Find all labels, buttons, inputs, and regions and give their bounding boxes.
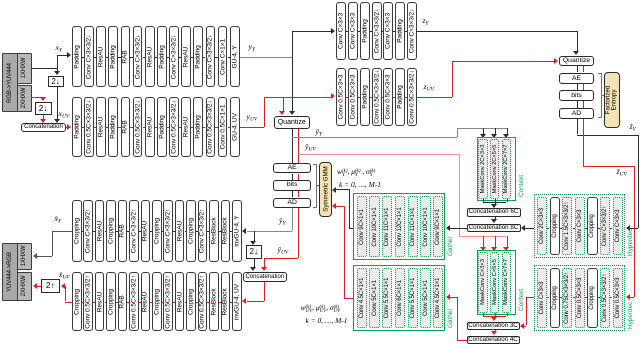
- wire Y-encoder connector 7: [155, 57, 157, 58]
- wire Y-encoder connector 6: [143, 57, 145, 58]
- wire UV-decoder connector 8: [162, 302, 164, 303]
- gather-Y conv 6: [420, 196, 430, 257]
- wire concat4C to gather UV: [450, 297, 458, 298]
- Y-encoder box 3 ResAU: [96, 26, 106, 87]
- wire Y-hyperdecoder connector 5: [598, 228, 600, 229]
- wire yUV to hyperencoder: [264, 97, 331, 98]
- arrowhead into concat 8C: [491, 219, 497, 223]
- wire xY horizontal from 1XHXW: [32, 68, 57, 69]
- wire bits-AD black: [292, 191, 293, 198]
- wire ctxUV merge drop 1: [483, 313, 484, 316]
- wire xUV-hat riser: [65, 286, 66, 302]
- label yY-hat decoder: [279, 217, 286, 227]
- wire yY-hat from AD: [292, 208, 293, 231]
- arrowhead yUV-hat into maskconvC 1: [480, 247, 486, 251]
- wire yY vertical split: [292, 31, 293, 113]
- wire yY output: [240, 57, 292, 58]
- label context UV label: [518, 288, 525, 310]
- wire hyperdecUV to concat3C: [524, 326, 527, 327]
- UV-hyperdecoder box 3 Conv 0.75C&#215;: [562, 268, 572, 328]
- wire gatherUV out: [344, 298, 354, 299]
- wire hyper bits-ad red: [583, 101, 584, 108]
- output converter YUV444-to-RGB: [2, 243, 18, 302]
- label zUV-hat: [617, 168, 627, 178]
- label yUV-hat near quantize: [305, 143, 316, 153]
- input Y plane 1xHxW: [17, 53, 32, 84]
- Y-decoder box 5 RAB: [118, 200, 128, 262]
- wire UV-decoder connector 9: [173, 302, 175, 303]
- arrowhead zUV-hat arrow: [626, 294, 630, 300]
- label yUV: [247, 113, 258, 123]
- wire Y-hyperdecoder connector 4: [585, 228, 587, 229]
- wire zUV-hat across: [583, 166, 634, 167]
- wire Y-hyperdecoder connector 2: [560, 228, 562, 229]
- arrowhead yUV into quantize: [279, 111, 285, 115]
- gather Y (outer green box): [353, 193, 444, 259]
- context model UV (outer green box): [477, 250, 516, 315]
- Y-decoder box 2 Conv C&#215;3&#215: [83, 200, 93, 262]
- UV-encoder box 6 Conv 0.5C&#215;3&#21: [133, 97, 143, 158]
- wire Y-encoder connector 10: [191, 57, 193, 58]
- wire Y downsample feed: [57, 68, 58, 72]
- wire Y-decoder connector 12: [207, 231, 209, 232]
- UV-decoder box 13 ResBlock: [209, 272, 219, 331]
- arrowhead 2-up arrow: [33, 283, 37, 289]
- UV-encoder box 8 Padding: [157, 97, 167, 158]
- UV-encoder box 9 Conv 0.5C&#215;3&#21: [169, 97, 179, 158]
- arrowhead yY-hat into maskconv2C 3: [503, 134, 509, 138]
- wire yUV-hat down: [264, 258, 265, 268]
- wire UV-decoder connector 14: [230, 302, 232, 303]
- wire Y-hyperencoder connector 5: [393, 31, 395, 32]
- Y-hyperencoder box 1 Conv C&#215;3&#215: [336, 2, 346, 60]
- wire UV-hyperdecoder connector 5: [598, 297, 600, 298]
- label zY: [423, 17, 429, 27]
- wire zY output: [417, 31, 577, 32]
- wire gatherY riser: [349, 189, 350, 228]
- arrowhead into dec concatenation red: [261, 267, 267, 271]
- gather-Y conv 4: [395, 196, 405, 257]
- arrowhead xY arrow: [67, 52, 71, 58]
- wire UV-decoder connector 2: [93, 302, 95, 303]
- wire yUV-hat drop 3: [507, 236, 508, 248]
- gather-UV conv 3: [382, 268, 392, 328]
- wire 2-down #3 out: [254, 259, 255, 268]
- label hyperdec UV label: [627, 301, 634, 328]
- UV-decoder box 6 Conv 0.5C&#215;3&#: [129, 272, 139, 331]
- Y-decoder box 9 Conv C&#215;3&#215: [163, 200, 173, 262]
- Y-hyperencoder box 4 Conv C&#215;3&#215: [372, 2, 382, 60]
- wire UV-encoder connector 1: [82, 127, 84, 128]
- UV-hyperencoder box 5 Conv 0.5C&#215;3&#: [383, 68, 393, 126]
- wire Y-decoder connector 4: [116, 231, 118, 232]
- label zY-hat: [630, 123, 636, 133]
- UV-hyperencoder box 7 Conv 0.5C&#215;3&#: [407, 68, 417, 126]
- wire yY-hat drop 1: [483, 128, 484, 135]
- UV-encoder box 4 Padding: [108, 97, 118, 158]
- wire UV-decoder connector 11: [196, 302, 198, 303]
- wire UV-encoder connector 3: [106, 127, 108, 128]
- label xY-hat: [55, 215, 62, 225]
- UV-context maskconv 3: [502, 252, 511, 313]
- concatenation 8C: [467, 224, 521, 232]
- input UV plane 2xHxW: [17, 85, 32, 113]
- wire concat3C to 4C: [495, 330, 496, 333]
- wire UV-encoder connector 7: [155, 127, 157, 128]
- wire zY-hat across: [577, 135, 638, 136]
- wire UV-hyperdecoder connector 1: [547, 297, 549, 298]
- gather-UV conv 7: [433, 268, 443, 328]
- Y-decoder box 12 Conv C&#215;3&#215: [198, 200, 208, 262]
- wire UV-encoder connector 13: [228, 127, 230, 128]
- wire Y-decoder connector 2: [93, 231, 95, 232]
- Y-hyperdecoder box 7 Conv C&#215;3&#2: [613, 197, 623, 255]
- UV-decoder box 3 ResAU: [95, 272, 105, 331]
- arrowhead yY into quantize: [289, 111, 295, 115]
- arrowhead zY-hat arrow: [626, 225, 630, 231]
- wire yY-hat to invGU: [247, 231, 293, 232]
- bracket main codec to GMM: [313, 164, 317, 208]
- wire UV-encoder connector 9: [179, 127, 181, 128]
- label k range UV: [306, 317, 348, 324]
- wire UV-encoder connector 12: [215, 127, 217, 128]
- UV-decoder box 10 ResAU: [175, 272, 185, 331]
- Y-hyperencoder box 6 Padding: [395, 2, 405, 60]
- wire Y-decoder connector 8: [162, 231, 164, 232]
- wire Y-decoder connector 5: [127, 231, 129, 232]
- concatenation 3C: [467, 322, 520, 330]
- Y-encoder box 11 Padding: [193, 26, 203, 87]
- UV-context maskconv 1: [478, 252, 487, 313]
- wire UV-encoder connector 4: [118, 127, 120, 128]
- wire yUV-hat from AD: [298, 208, 299, 258]
- Y-hyperdecoder box 5 Cropping: [587, 197, 597, 255]
- wire Y-hyperencoder connector 4: [382, 31, 384, 32]
- arrowhead into concat8C right: [521, 225, 525, 231]
- arrowhead into 2-down #2: [40, 97, 46, 101]
- UV-encoder box 14 GU-4, UV: [230, 97, 240, 158]
- label wY muY sigmaY: [337, 168, 375, 178]
- arrowhead into concatenation red: [40, 119, 46, 123]
- wire xUV-hat into 2-up: [64, 286, 65, 287]
- UV-encoder box 11 Padding: [193, 97, 203, 158]
- arrowhead into 2-down #1: [54, 71, 60, 75]
- UV-hyperdecoder box 7 Conv 0.5C&#215;3: [613, 268, 623, 328]
- wire ctxUV merge drop 3: [507, 313, 508, 316]
- wire bits-AD red: [298, 191, 299, 198]
- wire Y-encoder connector 4: [118, 57, 120, 58]
- label gather UV label: [447, 308, 454, 328]
- wire ctxY to concat6C: [495, 202, 496, 205]
- wire zUV riser: [452, 61, 453, 97]
- UV-encoder box 10 ResAU: [181, 97, 191, 158]
- UV-encoder box 5 RAB: [121, 97, 131, 158]
- gather-Y conv 5: [408, 196, 418, 257]
- wire concatenation to UV encoder: [66, 127, 68, 128]
- wire yUV-hat down: [459, 154, 460, 236]
- wire zY-hat down right edge: [638, 135, 639, 228]
- UV-decoder box 4 Cropping: [106, 272, 116, 331]
- label xUV: [59, 110, 70, 120]
- UV-hyperdecoder box 5 Cropping: [587, 268, 597, 328]
- Y-decoder box 7 ResAU: [141, 200, 151, 262]
- arrowhead into concat 6C: [491, 204, 497, 208]
- hyper AE: [559, 73, 595, 84]
- Y-decoder box 10 ResAU: [175, 200, 185, 262]
- Y-hyperdecoder box 4 Conv C&#215;3&#2: [575, 197, 585, 255]
- wire UV-encoder connector 10: [191, 127, 193, 128]
- gather UV (outer green box): [353, 265, 444, 330]
- wire Y-hyperencoder connector 6: [405, 31, 407, 32]
- wire Y-encoder connector 2: [94, 57, 96, 58]
- UV-decoder box 2 Conv 0.5C&#215;3&#: [83, 272, 93, 331]
- gather-Y conv 7: [433, 196, 443, 257]
- arrowhead yUV-hat into maskconvC 2: [491, 247, 497, 251]
- wire Y-hyperencoder connector 2: [358, 31, 360, 32]
- downsampler 2-down #1: [48, 76, 64, 87]
- wire UV-decoder connector 6: [139, 302, 141, 303]
- UV-context maskconv 2: [490, 252, 499, 313]
- wire ctxY merge drop 2: [495, 199, 496, 202]
- symmetric GMM entropy model: [319, 162, 331, 217]
- wire UV-hyperdecoder connector 4: [585, 297, 587, 298]
- wire zUV-hat into hyperdec UV: [630, 297, 635, 298]
- wire concat4C riser: [457, 297, 458, 340]
- wire Y-encoder connector 9: [179, 57, 181, 58]
- wire ctxY merge bar: [483, 202, 507, 203]
- input converter RGB-to-YUV444: [2, 53, 18, 112]
- wire quantize to AE black: [292, 129, 293, 163]
- hyper decoder UV (outer green dashed box): [534, 265, 625, 331]
- arrowhead into concatenation black: [54, 119, 60, 123]
- hyper bits: [559, 90, 595, 101]
- wire 2-down #1 to concatenation: [57, 87, 58, 120]
- Y-hyperencoder box 5 Conv C&#215;3&#215: [383, 2, 393, 60]
- label gather Y label: [447, 236, 454, 256]
- label xUV-hat: [59, 271, 70, 281]
- wire xY-hat into 1XHXW: [37, 256, 53, 257]
- wire UV-hyperdecoder connector 2: [560, 297, 562, 298]
- main AD: [273, 198, 311, 209]
- wire hyper ae-bits red: [583, 84, 584, 90]
- wire UV-decoder connector 7: [150, 302, 152, 303]
- arrowhead into GMM black: [332, 187, 336, 193]
- label yY: [249, 43, 256, 53]
- concatenation 6C: [467, 208, 521, 216]
- wire yUV-hat across: [264, 258, 297, 259]
- Y-encoder box 8 Padding: [157, 26, 167, 87]
- wire dec concat to invGU UV: [247, 301, 265, 302]
- UV-hyperdecoder box 2 Cropping: [550, 268, 560, 328]
- wire Y-decoder connector 1: [82, 231, 84, 232]
- UV-encoder box 13 Conv 0.5C&#215;1&#21: [218, 97, 228, 158]
- hyper AD: [559, 108, 595, 119]
- wire xY-hat drop: [52, 231, 53, 256]
- label xY: [56, 44, 63, 54]
- Y-encoder box 1 Padding: [72, 26, 82, 87]
- wire zUV-hat down right edge: [634, 166, 635, 297]
- gather-UV conv 2: [369, 268, 379, 328]
- UV-decoder box 12 Conv 0.5C&#215;3&#: [198, 272, 208, 331]
- Y-encoder box 9 Conv C&#215;3&#215;3: [169, 26, 179, 87]
- wire zY-hat into hyperdec Y: [630, 228, 639, 229]
- wire AE-bits black: [292, 174, 293, 181]
- label yY-hat near quantize: [316, 128, 323, 138]
- wire gatherY to GMM: [336, 189, 349, 190]
- wire UV-decoder connector 5: [127, 302, 129, 303]
- wire xUV-hat out of decoder: [65, 302, 72, 303]
- wire 2-up to 2XHXW: [37, 286, 41, 287]
- arrowhead into invGU-4 Y: [242, 228, 246, 234]
- arrowhead yY-hat into maskconv2C 2: [491, 134, 497, 138]
- wire Y-decoder connector 3: [105, 231, 107, 232]
- arrowhead into UV hyperencoder: [331, 93, 335, 99]
- wire AE-bits red: [298, 174, 299, 181]
- wire Y-decoder connector 9: [173, 231, 175, 232]
- wire ctxUV merge drop 2: [495, 313, 496, 316]
- wire UV-decoder connector 1: [82, 302, 84, 303]
- UV-decoder box 9 Conv 0.5C&#215;3&#: [163, 272, 173, 331]
- wire Y-decoder connector 13: [219, 231, 221, 232]
- context model Y (outer green box): [477, 137, 516, 201]
- Y-decoder box 8 Cropping: [152, 200, 162, 262]
- wire xY-hat out of decoder: [52, 231, 72, 232]
- Y-decoder box 13 ResBlock: [209, 200, 219, 262]
- wire hyperdecUV out: [526, 297, 534, 298]
- Y-encoder box 7 ResAU: [145, 26, 155, 87]
- label k range Y: [339, 181, 381, 188]
- upsampler 2-up: [41, 279, 61, 294]
- wire yY-hat to context: [292, 137, 457, 138]
- arrowhead into concat 3C: [491, 317, 497, 321]
- factorized entropy model: [604, 72, 620, 128]
- wire dec concat out: [264, 282, 265, 301]
- wire UV-hyperencoder connector 5: [393, 97, 395, 98]
- arrowhead yY-hat into maskconv2C 1: [480, 134, 486, 138]
- gather-UV conv 5: [408, 268, 418, 328]
- UV-decoder box 5 RAB: [118, 272, 128, 331]
- wire concat6C to 8C: [495, 217, 496, 221]
- gather-Y conv 3: [382, 196, 392, 257]
- wire Y-decoder connector 11: [196, 231, 198, 232]
- wire Y-hyperencoder connector 1: [346, 31, 348, 32]
- wire Y-encoder connector 11: [203, 57, 205, 58]
- wire hyper q-ae red: [583, 66, 584, 73]
- wire UV-decoder connector 4: [116, 302, 118, 303]
- UV-encoder box 12 Conv 0.5C&#215;3&#21: [206, 97, 216, 158]
- wire quantize to AE red: [298, 129, 299, 163]
- downsampler 2-down #2: [35, 102, 52, 115]
- arrowhead into UV encoder: [67, 124, 71, 130]
- wire hyperdecUV down: [526, 297, 527, 326]
- Y-hyperencoder box 7 Conv C&#215;3&#215: [407, 2, 417, 60]
- wire yY-hat drop 3: [507, 128, 508, 135]
- wire UV-hyperencoder connector 4: [382, 97, 384, 98]
- UV-hyperencoder box 4 Conv 0.5C&#215;3&#: [372, 68, 382, 126]
- wire hyper ae-bits black: [577, 84, 578, 90]
- arrowhead xY-hat arrow: [33, 253, 37, 259]
- arrowhead zY into quantize: [573, 51, 579, 55]
- wire ctxY merge drop 3: [507, 199, 508, 202]
- UV-encoder box 1 Padding: [72, 97, 82, 158]
- label context Y label: [518, 174, 525, 196]
- output Y plane 1xHxW: [17, 243, 32, 271]
- arrowhead into concat 4C: [491, 331, 497, 335]
- wire yUV drop to quantize: [283, 97, 284, 113]
- arrowhead into Y hyperencoder: [331, 28, 335, 34]
- wire gatherUV to GMM: [336, 206, 344, 207]
- wire Y-encoder connector 3: [106, 57, 108, 58]
- wire UV-encoder connector 11: [203, 127, 205, 128]
- Y-hyperdecoder box 6 Conv C&#215;3&#2: [600, 197, 610, 255]
- Y-context maskconv 2: [490, 139, 499, 199]
- wire concat8C to gather Y: [450, 228, 467, 229]
- wire yUV output: [240, 127, 265, 128]
- gather-UV conv 6: [420, 268, 430, 328]
- UV-hyperencoder box 2 Conv 0.5C&#215;3&#: [348, 68, 358, 126]
- Y-hyperdecoder box 3 Conv 1.5C&#215;3: [562, 197, 572, 255]
- UV-encoder box 7 ResAU: [145, 97, 155, 158]
- wire UV-hyperdecoder connector 6: [610, 297, 612, 298]
- Y-hyperencoder box 2 Conv C&#215;3&#215: [348, 2, 358, 60]
- Y-hyperencoder box 3 Padding: [360, 2, 370, 60]
- wire UV-encoder connector 8: [167, 127, 169, 128]
- bracket hyper codec to factorized entropy: [598, 73, 602, 118]
- wire UV-encoder connector 5: [130, 127, 132, 128]
- wire xY riser: [57, 55, 58, 69]
- Y-decoder box 4 Cropping: [106, 200, 116, 262]
- wire zUV-hat from AD: [583, 119, 584, 166]
- arrowhead xUV-hat arrow into 2-up: [61, 283, 65, 289]
- wire ctxUV to concat3C: [495, 316, 496, 318]
- wire yY to hyperencoder: [292, 31, 331, 32]
- arrowhead into gather UV: [446, 294, 450, 300]
- Y-context maskconv 3: [502, 139, 511, 199]
- Y-encoder box 6 Conv C&#215;3&#215;3: [133, 26, 143, 87]
- Y-decoder box 15 invGU-4, Y: [232, 200, 242, 262]
- wire concat4C out: [457, 340, 467, 341]
- wire UV-hyperdecoder connector 3: [573, 297, 575, 298]
- Y-context maskconv 1: [478, 139, 487, 199]
- UV-encoder box 3 ResAU: [96, 97, 106, 158]
- wire yY-hat context feeder: [457, 128, 507, 129]
- wire UV-hyperencoder connector 6: [405, 97, 407, 98]
- Y-encoder box 14 GU-4, Y: [230, 26, 240, 87]
- wire 2-down #2 to concatenation: [43, 115, 44, 120]
- wire yUV riser: [264, 97, 265, 127]
- UV-hyperdecoder box 1 Conv C&#215;3&#2: [537, 268, 547, 328]
- arrowhead into gather Y: [446, 225, 450, 231]
- gather-UV conv 4: [395, 268, 405, 328]
- wire UV-decoder connector 12: [207, 302, 209, 303]
- arrowhead into 2-down #3: [250, 241, 256, 245]
- wire xY into Y encoder: [57, 55, 68, 56]
- Y-encoder box 12 Conv C&#215;3&#215;3: [206, 26, 216, 87]
- arrowhead yUV-hat into maskconvC 3: [503, 247, 509, 251]
- label hyperdec Y label: [627, 229, 634, 256]
- wire zUV to quantize: [452, 61, 555, 62]
- UV-decoder box 7 ResAU: [141, 272, 151, 331]
- UV-hyperencoder box 6 Padding: [395, 68, 405, 126]
- wire Y-hyperdecoder connector 1: [547, 228, 549, 229]
- wire yUV-hat drop 1: [483, 236, 484, 248]
- wire yUV-hat context feeder: [459, 236, 507, 237]
- wire UV-decoder connector 10: [185, 302, 187, 303]
- arrowhead into GMM red: [332, 203, 336, 209]
- UV-decoder box 15 invGU-4, UV: [232, 272, 242, 331]
- wire Y-hyperencoder connector 3: [370, 31, 372, 32]
- Y-encoder box 5 RAB: [121, 26, 131, 87]
